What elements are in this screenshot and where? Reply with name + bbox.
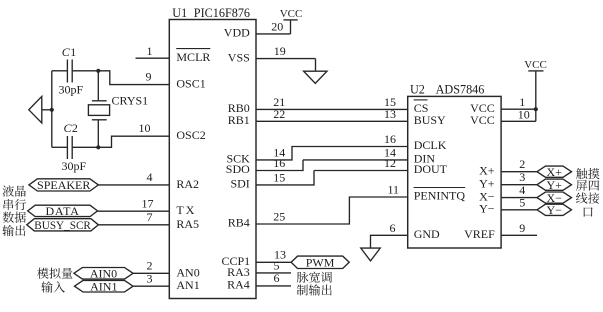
power symbol VCC (U2) — [524, 59, 547, 121]
net flag PWM — [291, 256, 349, 270]
U1 pin name RA4 — [227, 278, 250, 292]
svg-text:3: 3 — [519, 170, 525, 184]
svg-text:19: 19 — [274, 44, 286, 58]
svg-text:DOUT: DOUT — [414, 162, 448, 176]
pin number 6 (GND) — [390, 221, 396, 235]
svg-text:TX: TX — [176, 203, 196, 217]
U1 pin name AN1 — [176, 278, 199, 292]
pin number 4 (X-) — [519, 183, 525, 197]
svg-text:13: 13 — [384, 107, 396, 121]
pin 1 MCLR wire — [136, 57, 170, 59]
svg-text:VREF: VREF — [464, 227, 495, 241]
svg-text:VDD: VDD — [224, 26, 250, 40]
pin number 9 — [146, 70, 152, 84]
wire VDD pin 20 to VCC — [256, 20, 291, 34]
pin number 15 (CS) — [384, 95, 396, 109]
svg-text:VSS: VSS — [228, 50, 250, 64]
svg-text:RB4: RB4 — [228, 216, 250, 230]
U1 pin name RA5 — [176, 217, 199, 231]
svg-text:GND: GND — [414, 227, 440, 241]
svg-text:BUSY_SCR: BUSY_SCR — [34, 220, 91, 232]
svg-text:ADS7846: ADS7846 — [436, 83, 485, 97]
svg-text:17: 17 — [142, 197, 154, 211]
U2 pin name X- — [479, 189, 495, 203]
wire VSS pin 19 to ground — [256, 59, 316, 72]
wire GND to ground — [371, 235, 408, 248]
crystal CRYS1 — [88, 101, 109, 120]
capacitor C1 — [67, 60, 72, 83]
wire SCK to U2 DCLK — [256, 147, 408, 160]
pin number 1 — [147, 44, 153, 58]
svg-text:AN1: AN1 — [176, 278, 199, 292]
wire SDO to U2 DIN — [256, 160, 303, 171]
U2 pin name CS with overline — [414, 100, 429, 115]
pin number 1 — [519, 95, 525, 109]
wire Y+ to flag — [501, 184, 537, 186]
U1 pin name RA3 — [227, 265, 250, 279]
svg-text:MCLR: MCLR — [176, 50, 210, 64]
U1 pin name AN0 — [176, 265, 199, 279]
wire crystal top lead — [97, 71, 99, 101]
pin number 9 (VREF) — [519, 221, 525, 235]
pin number 4 — [147, 170, 153, 184]
wire RB1 to U2 BUSY (net) — [256, 120, 408, 122]
U1 pin name MCLR with overline — [176, 49, 210, 65]
pin number 22 — [273, 107, 285, 121]
pin number 3 (Y+) — [519, 170, 525, 184]
svg-text:BUSY: BUSY — [414, 113, 446, 127]
wire RB4 to U2 PENINTQ — [256, 197, 408, 224]
wire top node to capacitor C1 — [73, 70, 99, 72]
wire OSC1 to crystal top node — [98, 71, 169, 85]
svg-text:1: 1 — [70, 45, 76, 59]
wire RA3 stub — [256, 272, 291, 274]
wire SPEAKER to RA2 — [98, 184, 169, 186]
svg-text:Y−: Y− — [546, 203, 562, 217]
svg-text:AN0: AN0 — [176, 265, 199, 279]
wire OSC2 to crystal bottom node — [98, 136, 169, 147]
svg-text:X+: X+ — [479, 163, 495, 177]
svg-text:SDI: SDI — [230, 177, 249, 191]
svg-text:RA5: RA5 — [176, 217, 199, 231]
net flag X+ — [537, 165, 572, 179]
CRYS1 reference label — [112, 93, 149, 107]
annotation text analog input — [37, 268, 72, 293]
U2 pin name GND — [414, 227, 440, 241]
svg-text:25: 25 — [273, 209, 285, 223]
pin number 13 (BUSY) — [384, 107, 396, 121]
pin number 5 (Y-) — [519, 195, 525, 209]
ground symbol (VSS) — [304, 71, 327, 83]
wire AIN0 to AN0 — [133, 272, 169, 274]
pin number 16 (SDO) — [273, 156, 285, 170]
annotation text touch screen 4-wire interface — [576, 168, 600, 217]
svg-text:22: 22 — [273, 107, 285, 121]
pin number 21 — [273, 95, 285, 109]
pin number 12 (DOUT) — [384, 156, 396, 170]
U2 pin name VREF — [464, 227, 495, 241]
power symbol VCC (U1) — [280, 8, 303, 20]
pin number 6 (RA4) — [274, 271, 280, 285]
U1 pin name CCP1 — [222, 254, 251, 268]
svg-text:Y+: Y+ — [479, 176, 495, 190]
U1 pin name SDO — [226, 162, 250, 176]
svg-text:11: 11 — [387, 182, 399, 196]
ground symbol (U2 GND) — [361, 248, 380, 261]
pin number 19 — [274, 44, 286, 58]
pin number 25 — [273, 209, 285, 223]
C2 reference label — [64, 121, 78, 135]
wire SDI to U2 DOUT — [256, 171, 314, 185]
pin number 2 (AN0) — [147, 259, 153, 273]
svg-text:Y−: Y− — [479, 202, 495, 216]
U1 pin name VSS — [228, 50, 250, 64]
svg-text:3: 3 — [147, 272, 153, 286]
U1 pin name SDI — [230, 177, 249, 191]
wire bottom node to capacitor C2 — [73, 146, 99, 148]
pin number 14 (DIN) — [384, 146, 396, 160]
svg-text:15: 15 — [273, 170, 285, 184]
svg-text:5: 5 — [519, 195, 525, 209]
U2 pin name PENINTQ with overline — [414, 188, 466, 203]
svg-text:U1: U1 — [172, 6, 187, 20]
annotation text LCD serial data output (liquid crystal) — [2, 185, 26, 236]
net flag DATA — [28, 204, 98, 218]
U1 pin name VDD — [224, 26, 250, 40]
node junction bottom (crystal/C2/OSC2) — [96, 145, 100, 149]
C2 value label 30pF — [62, 159, 87, 173]
wire VCC pin1 — [501, 108, 536, 110]
svg-text:SPEAKER: SPEAKER — [37, 178, 90, 192]
wire C1 to left rail — [52, 70, 67, 72]
capacitor C2 — [67, 136, 72, 159]
IC U2 ADS7846 body — [408, 96, 501, 248]
U2 pin name Y+ — [479, 176, 495, 190]
IC U1 PIC16F876 body — [169, 20, 256, 299]
node junction VCC pins — [534, 107, 538, 111]
pin number 2 (X+) — [519, 157, 525, 171]
wire C2 to left rail — [52, 146, 67, 148]
pin number 14 (SCK) — [273, 146, 285, 160]
wire DIN segment — [303, 159, 408, 161]
wire Y- to flag — [501, 209, 537, 211]
svg-text:4: 4 — [147, 170, 153, 184]
svg-text:DCLK: DCLK — [414, 138, 447, 152]
pin number 16 (DCLK) — [384, 132, 396, 146]
C1 value label 30pF — [59, 83, 84, 97]
wire DATA to TX — [98, 210, 170, 212]
svg-text:SDO: SDO — [226, 162, 250, 176]
svg-text:PIC16F876: PIC16F876 — [194, 6, 250, 20]
node junction top (crystal/C1/OSC1) — [96, 69, 100, 73]
net flag X- — [537, 191, 572, 205]
svg-text:2: 2 — [147, 259, 153, 273]
svg-text:U2: U2 — [410, 83, 425, 97]
svg-text:PENINTQ: PENINTQ — [414, 189, 466, 203]
U1 pin name RA2 — [176, 177, 199, 191]
wire DOUT segment — [314, 170, 408, 172]
net flag AIN0 — [74, 267, 133, 281]
U1 pin name RB1 — [228, 113, 250, 127]
svg-text:Y+: Y+ — [546, 178, 562, 192]
svg-text:2: 2 — [519, 157, 525, 171]
svg-text:6: 6 — [274, 271, 280, 285]
pin number 7 — [147, 210, 153, 224]
svg-text:12: 12 — [384, 156, 396, 170]
wire CCP1 to PWM flag — [256, 261, 291, 263]
annotation text PWM output — [297, 272, 332, 296]
wire VCC pin10 — [501, 120, 536, 122]
svg-text:OSC1: OSC1 — [176, 77, 205, 91]
wire VREF stub — [501, 234, 537, 236]
pin number 10 — [139, 121, 151, 135]
svg-text:16: 16 — [273, 156, 285, 170]
svg-text:6: 6 — [390, 221, 396, 235]
U2 pin name DOUT — [414, 162, 448, 176]
svg-text:RA2: RA2 — [176, 177, 199, 191]
svg-text:16: 16 — [384, 132, 396, 146]
pin number 15 (SDI) — [273, 170, 285, 184]
U2 pin name VCC (pin1) — [470, 101, 495, 115]
U2 pin name DIN — [414, 152, 436, 166]
pin number 10 — [518, 107, 530, 121]
U1 pin name OSC2 — [176, 128, 205, 142]
U1 pin name TX — [176, 203, 196, 217]
wire X- to flag — [501, 197, 537, 199]
wire X+ to flag — [501, 171, 537, 173]
wire AIN1 to AN1 — [133, 285, 169, 287]
node junction rail/ground — [50, 108, 54, 112]
svg-text:PWM: PWM — [306, 256, 335, 270]
svg-text:7: 7 — [147, 210, 153, 224]
svg-text:CRYS1: CRYS1 — [112, 93, 149, 107]
svg-text:RB1: RB1 — [228, 113, 250, 127]
U2 reference designator label — [410, 83, 484, 97]
svg-text:RA4: RA4 — [227, 278, 250, 292]
svg-text:9: 9 — [519, 221, 525, 235]
svg-text:OSC2: OSC2 — [176, 128, 205, 142]
net flag Y- — [537, 203, 572, 217]
U2 pin name X+ — [479, 163, 495, 177]
svg-text:X+: X+ — [546, 165, 562, 179]
U2 pin name Y- — [479, 202, 495, 216]
pin number 3 (AN1) — [147, 272, 153, 286]
svg-text:10: 10 — [518, 107, 530, 121]
ground symbol left (pointing left) — [29, 96, 42, 123]
svg-text:30pF: 30pF — [62, 159, 87, 173]
svg-text:20: 20 — [271, 19, 283, 33]
wire RA4 stub — [256, 285, 291, 287]
net flag SPEAKER — [29, 178, 99, 192]
svg-text:10: 10 — [139, 121, 151, 135]
left rail wire — [51, 71, 53, 148]
svg-text:VCC: VCC — [470, 113, 495, 127]
svg-text:DATA: DATA — [45, 204, 79, 218]
net flag Y+ — [537, 178, 572, 192]
net flag BUSY_SCR — [27, 219, 99, 232]
svg-text:30pF: 30pF — [59, 83, 84, 97]
svg-text:1: 1 — [147, 44, 153, 58]
wire crystal bottom lead — [97, 120, 99, 148]
U2 pin name DCLK — [414, 138, 447, 152]
svg-text:9: 9 — [146, 70, 152, 84]
wire RB0 to U2 CS (net) — [256, 108, 408, 110]
U1 pin name SCK — [226, 152, 250, 166]
U1 reference designator label — [172, 6, 250, 20]
U1 pin name RB0 — [228, 101, 250, 115]
svg-text:AIN1: AIN1 — [90, 279, 117, 293]
svg-text:VCC: VCC — [280, 8, 303, 20]
svg-text:VCC: VCC — [524, 59, 547, 71]
U2 pin name BUSY — [414, 113, 446, 127]
C1 reference label — [62, 45, 76, 59]
pin number 17 — [142, 197, 154, 211]
wire BUSY_SCR to RA5 — [98, 224, 169, 226]
svg-text:2: 2 — [72, 121, 78, 135]
net flag AIN1 — [75, 279, 134, 293]
svg-text:AIN0: AIN0 — [90, 267, 117, 281]
pin number 20 — [271, 19, 283, 33]
pin number 11 — [387, 182, 399, 196]
U1 pin name OSC1 — [176, 77, 205, 91]
pin number 13 (CCP1) — [274, 248, 286, 262]
U1 pin name RB4 — [228, 216, 250, 230]
U2 pin name VCC (pin10) — [470, 113, 495, 127]
pin number 5 (RA3) — [274, 259, 280, 273]
wire ground to rail — [42, 109, 52, 111]
